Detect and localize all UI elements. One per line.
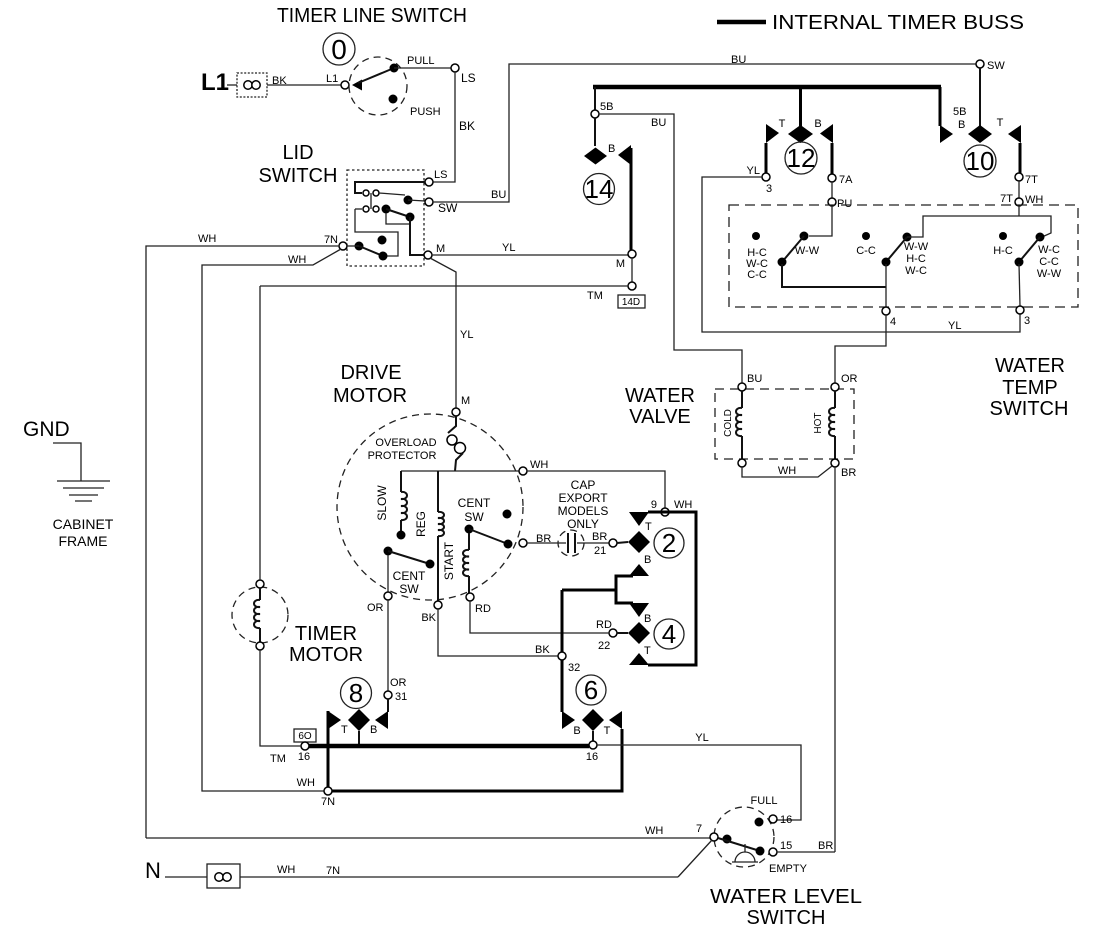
wire BK from terminal to node L1	[267, 84, 341, 86]
svg-text:PUSH: PUSH	[410, 106, 441, 118]
open contact dot (upper)	[503, 510, 512, 519]
svg-text:BU: BU	[651, 117, 666, 129]
bus zigzag between contacts 2 and 4	[616, 576, 633, 603]
capacitor C (dashed circle with plates)	[558, 530, 584, 556]
svg-text:OR: OR	[390, 677, 407, 689]
timer circle 14	[584, 174, 615, 205]
contact dot	[1015, 258, 1024, 267]
svg-text:7T: 7T	[1025, 174, 1038, 186]
svg-text:WATER: WATER	[625, 385, 695, 407]
node 21	[609, 539, 617, 547]
wire to SW contact	[379, 193, 405, 195]
svg-text:START: START	[442, 541, 456, 580]
svg-text:LS: LS	[461, 71, 476, 85]
wire WH second branch	[202, 249, 341, 791]
svg-text:B: B	[958, 119, 965, 131]
node SW	[425, 198, 433, 206]
contact dot PUSH	[389, 95, 398, 104]
svg-text:MOTOR: MOTOR	[333, 385, 407, 407]
svg-text:OR: OR	[367, 602, 384, 614]
contact 4 top triangle	[629, 603, 649, 617]
boxed label 6O	[294, 729, 316, 742]
svg-text:CENT: CENT	[393, 569, 426, 583]
node OR	[384, 592, 392, 600]
svg-text:TEMP: TEMP	[1002, 377, 1058, 399]
node M (drive motor)	[452, 408, 460, 416]
chassis ground hatching	[57, 481, 110, 501]
contact dot	[882, 258, 891, 267]
svg-text:YL: YL	[747, 165, 760, 177]
wire contact to node M	[410, 217, 424, 255]
wire YL from 12 to water temp switch	[702, 177, 1020, 332]
node RD	[466, 593, 474, 601]
svg-text:3: 3	[766, 183, 772, 195]
wire to node SW	[408, 200, 425, 201]
lid switch contact circle b1	[363, 206, 369, 212]
node 22 (RD)	[609, 629, 617, 637]
contact dot	[778, 258, 787, 267]
svg-text:DRIVE: DRIVE	[340, 362, 401, 384]
svg-text:7N: 7N	[326, 865, 340, 877]
open contact dot	[378, 236, 387, 245]
node 7	[710, 833, 718, 841]
svg-text:YL: YL	[502, 242, 515, 254]
svg-text:WATER: WATER	[995, 355, 1065, 377]
svg-text:BU: BU	[491, 189, 506, 201]
svg-text:9: 9	[651, 499, 657, 511]
svg-text:BR: BR	[818, 840, 833, 852]
svg-text:T: T	[341, 724, 348, 736]
wire OR to node 31	[387, 600, 389, 691]
wire motor top rail	[401, 470, 519, 472]
wire node 4 to OR	[835, 315, 886, 383]
node 16 (water level)	[769, 815, 777, 823]
connector terminal L1 (box with two circles)	[237, 73, 267, 97]
svg-text:T: T	[779, 118, 786, 130]
contact dot bottom row	[379, 252, 388, 261]
svg-text:16: 16	[780, 814, 792, 826]
svg-text:BK: BK	[535, 644, 550, 656]
svg-text:WH: WH	[1025, 194, 1043, 206]
node 3 (water temp)	[1016, 306, 1024, 314]
timer circle 10	[964, 145, 996, 177]
svg-text:H-C: H-C	[993, 245, 1013, 257]
node BR (water valve)	[831, 459, 839, 467]
svg-text:INTERNAL TIMER BUSS: INTERNAL TIMER BUSS	[772, 12, 1024, 34]
svg-text:FRAME: FRAME	[59, 533, 108, 549]
water valve dashed box	[715, 389, 854, 459]
contact dot FULL	[755, 818, 764, 827]
wire WH node into rail	[1018, 206, 1020, 216]
contact dot row2	[406, 213, 415, 222]
timer circle 8	[341, 678, 372, 709]
svg-text:C-C: C-C	[747, 269, 767, 281]
cent sw lower blade	[388, 551, 430, 564]
svg-text:PU: PU	[837, 198, 852, 210]
node 7N (lid switch)	[339, 242, 347, 250]
cent sw lower pivot dot	[384, 547, 393, 556]
wire SW vertical to contact 10	[976, 60, 984, 68]
timer circle 6	[576, 675, 606, 705]
timer circle 2	[654, 528, 684, 558]
cent sw upper pivot dot	[465, 525, 474, 534]
contact dot PULL	[390, 64, 399, 73]
node BU (water valve)	[738, 383, 746, 391]
bus drop to contact 10 left	[939, 87, 942, 126]
cent sw upper blade	[469, 529, 508, 544]
svg-text:22: 22	[598, 640, 610, 652]
svg-text:VALVE: VALVE	[629, 406, 691, 428]
svg-text:B: B	[814, 118, 821, 130]
contact 8 right triangle	[375, 711, 388, 729]
timer circle 12	[785, 142, 817, 174]
wire link between contact rows	[370, 193, 372, 209]
svg-text:WH: WH	[297, 777, 315, 789]
wire node 15 to BR riser	[777, 851, 835, 853]
svg-text:C-C: C-C	[1039, 256, 1059, 268]
bus 10 right to node 7T	[1019, 143, 1022, 173]
svg-text:BR: BR	[841, 467, 856, 479]
svg-text:B: B	[644, 554, 651, 566]
contact 10 right triangle	[1008, 125, 1021, 143]
wire BK from LS down to lid switch	[433, 72, 455, 182]
coil COLD	[736, 391, 742, 459]
svg-text:M: M	[436, 243, 445, 255]
wire WH motor to node 9	[527, 471, 665, 508]
wire diagonal up to node 7	[678, 840, 712, 877]
bus drop to contact 12	[799, 87, 802, 126]
contact dot slow end	[397, 531, 406, 540]
bus 32 vertical to contact 6	[561, 590, 564, 712]
blade right switch	[1019, 237, 1040, 262]
water temp switch dashed box	[729, 205, 1078, 307]
svg-text:H-C: H-C	[906, 253, 926, 265]
node BK (motor)	[434, 601, 442, 609]
svg-text:T: T	[644, 645, 651, 657]
node 31	[384, 691, 392, 699]
svg-text:B: B	[573, 725, 580, 737]
lid switch dashed body box	[347, 170, 424, 266]
svg-text:OR: OR	[841, 373, 858, 385]
svg-text:B: B	[370, 724, 377, 736]
pressure dome symbol	[732, 844, 758, 862]
svg-text:W-C: W-C	[905, 265, 927, 277]
svg-text:6: 6	[584, 675, 598, 705]
lid switch contact circle b2	[373, 206, 379, 212]
svg-text:WH: WH	[198, 233, 216, 245]
contact dot EMPTY	[756, 847, 765, 856]
wire node 22 to contact 4	[617, 632, 628, 634]
timer circle 4	[654, 619, 684, 649]
bus contact 6 right down to 7N rail	[332, 729, 622, 791]
contact 6 cam diamond	[582, 709, 604, 731]
svg-text:TM: TM	[270, 753, 286, 765]
wire 7A to PU	[831, 182, 833, 198]
svg-text:7A: 7A	[839, 174, 853, 186]
contact 6 left triangle	[562, 711, 575, 729]
contact 2 cam diamond	[628, 531, 650, 553]
bus to contact 6 branch	[562, 589, 616, 592]
svg-text:SWITCH: SWITCH	[259, 165, 338, 187]
svg-text:CENT: CENT	[458, 496, 491, 510]
svg-text:WH: WH	[530, 459, 548, 471]
svg-text:BU: BU	[731, 54, 746, 66]
contact dot SW	[404, 196, 413, 205]
node 9 (WH)	[661, 508, 669, 516]
svg-text:L1: L1	[201, 69, 229, 96]
node OR (water valve)	[831, 383, 839, 391]
svg-text:WH: WH	[778, 465, 796, 477]
svg-text:M: M	[461, 395, 470, 407]
coil REG	[438, 471, 444, 601]
svg-text:TIMER: TIMER	[295, 623, 357, 645]
svg-text:W-W: W-W	[795, 245, 820, 257]
svg-text:ONLY: ONLY	[567, 517, 599, 531]
boxed label 14D	[618, 295, 645, 308]
svg-text:T: T	[997, 117, 1004, 129]
svg-text:5B: 5B	[600, 101, 613, 113]
svg-text:B: B	[608, 143, 615, 155]
svg-text:SW: SW	[464, 510, 484, 524]
node 32	[558, 652, 566, 660]
node 16 (right)	[589, 741, 597, 749]
svg-text:16: 16	[586, 751, 598, 763]
contact 12 left triangle	[766, 124, 779, 143]
wire timer motor bottom to node 16	[260, 650, 301, 746]
wire WH from N terminal	[240, 876, 678, 878]
svg-text:LS: LS	[434, 169, 447, 181]
svg-text:EMPTY: EMPTY	[769, 863, 808, 875]
node YL (3)	[762, 173, 770, 181]
pivot dot water level	[723, 835, 732, 844]
svg-text:SW: SW	[987, 60, 1005, 72]
switch blade to PULL contact	[358, 68, 394, 83]
wire 5B to contact 14	[594, 118, 596, 146]
overload protector	[447, 416, 466, 471]
node 7T	[1015, 173, 1023, 181]
svg-text:WH: WH	[674, 499, 692, 511]
contact 4 bottom triangle	[629, 653, 649, 665]
svg-text:12: 12	[787, 143, 816, 173]
svg-text:WATER LEVEL: WATER LEVEL	[710, 886, 862, 908]
contact 8 cam diamond	[348, 709, 370, 731]
timer line switch dashed body circle	[349, 57, 407, 115]
switch position circle 0	[323, 33, 355, 65]
svg-text:32: 32	[568, 662, 580, 674]
bus 12 left to node YL	[765, 143, 768, 173]
wire RD from motor to node 22	[470, 601, 609, 633]
contact 12 cam diamond	[788, 125, 813, 143]
svg-text:FULL: FULL	[751, 795, 778, 807]
wire contact to bottom rail	[782, 264, 886, 287]
wire row2 stub	[355, 208, 362, 210]
wire M to TM node	[631, 258, 633, 282]
svg-text:6O: 6O	[298, 731, 312, 742]
wire feed rail from WH	[907, 216, 1051, 237]
svg-text:16: 16	[298, 751, 310, 763]
wire WH from 7N to left column	[146, 246, 339, 838]
svg-text:M: M	[616, 258, 625, 270]
svg-text:SWITCH: SWITCH	[747, 907, 826, 929]
contact 6 right triangle	[609, 711, 622, 729]
wire node to pivot	[347, 245, 359, 247]
bus from contact 14 to node M	[630, 148, 633, 250]
node 4 (water temp)	[882, 307, 890, 315]
node 16 (left)	[301, 742, 309, 750]
node 7A	[828, 174, 836, 182]
contact 2 top triangle	[629, 512, 649, 526]
svg-text:C-C: C-C	[856, 245, 876, 257]
wire 31 to contact 8	[387, 699, 389, 712]
svg-text:W-C: W-C	[1038, 244, 1060, 256]
wire YL from M to contact 14 M node	[432, 254, 628, 256]
svg-text:L1: L1	[326, 73, 338, 85]
svg-text:3: 3	[1024, 315, 1030, 327]
svg-text:SLOW: SLOW	[375, 485, 389, 521]
svg-text:7N: 7N	[321, 796, 335, 808]
node 7N	[324, 787, 332, 795]
option contact dot H-C/W-C/C-C	[752, 232, 760, 240]
bus drop to 5B	[594, 87, 596, 110]
coil START	[463, 533, 469, 593]
legend: internal timer buss sample line	[717, 20, 766, 25]
svg-text:15: 15	[780, 840, 792, 852]
blade water level	[718, 838, 760, 851]
pivot dot W-W switch	[800, 232, 809, 241]
bus contact 8 left to node 7N	[327, 711, 330, 791]
switch blade arrowhead at L1	[352, 80, 362, 91]
svg-text:COLD: COLD	[723, 409, 734, 437]
contact 8 left triangle	[328, 711, 341, 729]
svg-text:4: 4	[662, 619, 676, 649]
svg-text:14: 14	[585, 174, 614, 204]
internal timer buss (top)	[593, 85, 941, 90]
bus 12 right to node 7A	[831, 143, 834, 174]
node M (timer)	[628, 250, 636, 258]
svg-text:31: 31	[395, 691, 407, 703]
node 5B	[591, 110, 599, 118]
svg-text:MODELS: MODELS	[558, 504, 609, 518]
svg-text:10: 10	[966, 146, 995, 176]
pivot dot right switch	[1036, 233, 1045, 242]
contact 12 right triangle	[820, 124, 833, 143]
svg-text:HOT: HOT	[813, 412, 824, 433]
wire PU into switch	[809, 206, 832, 236]
svg-text:0: 0	[331, 34, 347, 65]
wire WH to node 7	[146, 837, 710, 839]
contact 10 cam diamond	[968, 125, 992, 143]
wire BK from motor to node 32	[438, 609, 558, 656]
svg-text:RD: RD	[475, 603, 491, 615]
svg-text:RD: RD	[596, 619, 612, 631]
node M (lid switch)	[424, 251, 432, 259]
wire row2 loop to bottom row	[355, 209, 398, 256]
blade W-W	[782, 236, 804, 262]
node L1	[341, 81, 349, 89]
wire TM to timer motor	[260, 285, 628, 287]
wire BU from SW up and over	[433, 64, 976, 202]
wire BR to capacitor	[527, 542, 566, 544]
wire timer motor top to TM line	[259, 286, 261, 580]
svg-text:W-W: W-W	[1037, 268, 1062, 280]
contact 4 cam diamond	[628, 622, 650, 644]
svg-text:N: N	[145, 858, 161, 883]
pivot dot row2	[382, 205, 391, 214]
wire WH jumper	[742, 466, 832, 477]
svg-text:LID: LID	[282, 142, 313, 164]
contact 6 diamond drop	[592, 731, 594, 742]
svg-text:WH: WH	[288, 254, 306, 266]
wire node 21 to contact 2	[617, 542, 628, 543]
svg-text:T: T	[604, 725, 611, 737]
svg-text:7: 7	[696, 823, 702, 835]
svg-text:SWITCH: SWITCH	[990, 398, 1069, 420]
node WH (motor)	[519, 467, 527, 475]
wire jog row2	[386, 213, 410, 224]
drive motor dashed circle	[337, 414, 523, 600]
svg-text:2: 2	[662, 528, 676, 558]
svg-text:YL: YL	[460, 329, 473, 341]
bus right side U of contacts 2/4	[648, 512, 696, 665]
svg-text:BK: BK	[459, 119, 475, 133]
svg-text:CAP: CAP	[571, 478, 596, 492]
timer motor bottom node	[256, 642, 264, 650]
node cold bottom	[738, 459, 746, 467]
cent sw lower contact dot	[426, 560, 435, 569]
svg-text:BU: BU	[747, 373, 762, 385]
cent sw upper contact dot	[504, 540, 513, 549]
contact 8 diamond drop	[358, 731, 360, 746]
svg-text:SW: SW	[399, 582, 419, 596]
water level switch dashed circle	[714, 807, 774, 867]
contact 14 cam diamond	[584, 148, 607, 165]
node LS (timer line switch)	[451, 64, 459, 72]
option contact dot C-C	[862, 232, 870, 240]
pivot dot bottom row	[355, 242, 364, 251]
svg-text:4: 4	[890, 316, 896, 328]
wire N lead-in	[165, 876, 207, 878]
svg-text:PROTECTOR: PROTECTOR	[368, 450, 437, 462]
svg-text:8: 8	[349, 678, 363, 708]
wire BU from 5B to water valve	[599, 114, 742, 383]
timer motor dashed circle	[232, 587, 288, 643]
node PU	[828, 198, 836, 206]
svg-text:REG: REG	[414, 511, 428, 537]
svg-text:21: 21	[594, 545, 606, 557]
wire L1 lead-in	[227, 84, 237, 86]
svg-text:PULL: PULL	[407, 55, 435, 67]
timer motor coil	[254, 588, 260, 642]
wire SW down	[979, 68, 981, 126]
wire capacitor to node 21	[577, 542, 609, 544]
svg-text:BK: BK	[421, 612, 436, 624]
svg-text:14D: 14D	[622, 297, 640, 308]
coil HOT	[829, 391, 835, 459]
node 15	[769, 848, 777, 856]
svg-text:W-W: W-W	[904, 241, 929, 253]
wire to node 3	[1019, 264, 1020, 306]
svg-text:T: T	[645, 521, 652, 533]
lid switch contact circle a1	[363, 190, 369, 196]
svg-text:TIMER LINE SWITCH: TIMER LINE SWITCH	[277, 5, 467, 27]
node TM	[628, 282, 636, 290]
bus 16 rail	[309, 744, 589, 749]
contact 10 left triangle	[940, 125, 953, 143]
connector terminal N (box with two circles)	[207, 864, 240, 888]
pivot dot middle switch	[903, 233, 912, 242]
svg-text:YL: YL	[695, 732, 708, 744]
wire PULL to LS	[394, 67, 451, 69]
